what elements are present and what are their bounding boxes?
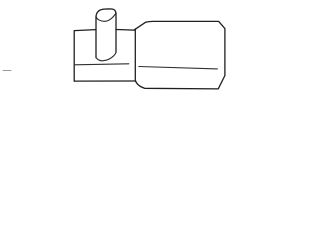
cylinder left side <box>95 16 97 57</box>
bracket bottom edge <box>74 80 135 82</box>
bracket top edge right segment <box>116 29 134 32</box>
cylinder right side <box>115 13 117 52</box>
body block outline <box>134 21 225 89</box>
cylinder bottom rim arc <box>96 52 116 61</box>
left dash <box>3 70 11 72</box>
cylinder cap top arc <box>96 9 116 16</box>
bracket left+top edge <box>74 30 96 82</box>
bracket seam line <box>74 64 129 65</box>
body seam line <box>139 67 218 69</box>
cylinder cap front rim <box>96 13 116 21</box>
